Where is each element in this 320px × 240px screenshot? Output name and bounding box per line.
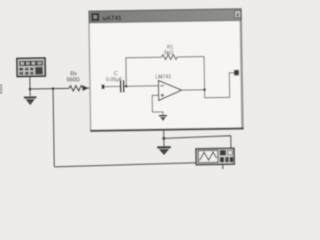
wire: bottom run to oscilloscope [54,163,196,167]
wire: op-amp output [181,89,204,91]
node: output junction [203,88,206,91]
wire: feedback top right and riser down [177,57,204,91]
scope waveform [200,152,217,160]
function generator XFG1 [17,58,45,76]
oscilloscope XSC1 [196,148,234,164]
scan edge artifact left [0,84,2,94]
paper background [0,0,250,172]
wire: stub below window [163,130,165,138]
wire: output jog to terminal [204,73,235,98]
title bar icon [91,13,99,21]
wire: feedback riser left [126,57,162,86]
svg-text:5kΩ: 5kΩ [164,50,174,56]
capacitor C plates [120,80,122,92]
resistor R1 (zigzag) [162,55,178,60]
op-amp U1 (LM741) [158,80,181,100]
resistor Rx (zigzag) [69,86,83,91]
svg-text:LM741: LM741 [155,74,171,80]
op-amp minus sign [161,85,164,87]
subcircuit output terminal [234,70,239,76]
subcircuit input terminal [101,85,104,89]
wire: junction down to ground [163,138,165,146]
title bar button (restore) [235,11,241,18]
wire: Rx to window edge, connector arrow [83,87,89,89]
ground (scope net) [157,146,171,148]
window title bar [89,9,241,23]
wire: capacitor to op-amp minus [125,85,159,88]
svg-text:560Ω: 560Ω [67,77,80,83]
node: summing junction [125,85,128,88]
wire: input to capacitor [103,85,120,87]
scope screen [198,150,218,162]
node: branch to bottom wire [52,87,55,90]
svg-text:C: C [114,71,118,77]
ground (op-amp plus) [159,115,167,117]
svg-text:uA741: uA741 [102,15,122,22]
svg-text:0.05μF: 0.05μF [106,77,122,83]
wire: plus input to ground [152,95,163,115]
node: generator output junction [29,88,32,91]
wire: generator pin down [29,76,31,96]
wire: to oscilloscope top [164,136,231,150]
subcircuit window frame [89,9,243,131]
scope controls [220,150,226,155]
op-amp plus sign [161,93,165,97]
ground (generator) [24,96,36,98]
window right edge shading [239,9,243,129]
wire: left vertical to bottom [53,89,54,167]
wire: generator to Rx [30,87,69,90]
scope bottom stub [222,164,224,169]
window bottom edge (dark) [90,127,243,131]
node: below window junction [162,137,165,140]
